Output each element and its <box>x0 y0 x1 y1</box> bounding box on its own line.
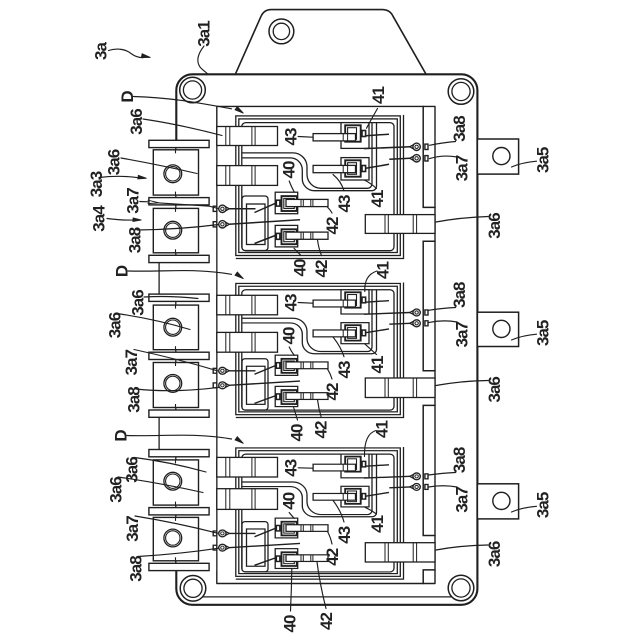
arrow D3 <box>235 437 244 444</box>
svg-text:3a6: 3a6 <box>127 109 146 135</box>
case inner bottom step line <box>186 596 468 598</box>
label 3a7 cell1 leader through flange <box>140 201 148 203</box>
svg-text:40: 40 <box>281 615 300 632</box>
svg-text:3a5: 3a5 <box>534 320 553 346</box>
svg-text:43: 43 <box>335 195 354 212</box>
power unit cell D #1 <box>213 115 428 259</box>
leader 43 <box>298 136 312 139</box>
mounting hole top-left <box>180 77 206 103</box>
leader 3a4 <box>107 219 134 221</box>
arrow 3a4 <box>133 218 142 222</box>
leader 43 <box>333 175 344 191</box>
leader 41 <box>365 344 377 355</box>
case body 3a outline <box>176 74 477 605</box>
terminal screw hole <box>164 318 182 336</box>
svg-text:3a4: 3a4 <box>90 205 109 232</box>
leader 3a6 <box>135 458 207 473</box>
leader 3a1 <box>198 46 208 74</box>
terminal flange 3a8 strip 1 <box>149 450 209 457</box>
leader 3a6 <box>436 217 488 223</box>
rail edge 3a4 between assemblies <box>158 262 160 294</box>
cavity opening outline <box>217 106 435 583</box>
mounting hole top-right <box>448 79 474 105</box>
svg-text:3a7: 3a7 <box>453 321 472 347</box>
leader 41 <box>365 507 377 514</box>
leader 42 <box>318 240 322 256</box>
output terminal bar 3a6 (right, cell 3) <box>365 543 435 562</box>
terminal screw hole <box>164 472 182 490</box>
leader 42 <box>318 400 322 417</box>
svg-text:3a7: 3a7 <box>453 155 472 181</box>
leader 40 <box>294 407 298 420</box>
arrow 3a3 <box>138 175 147 179</box>
leader 3a8 <box>137 225 219 231</box>
leader 3a5 <box>512 161 537 167</box>
terminal flange 3a8 strip 2 <box>149 508 209 515</box>
svg-text:3a6: 3a6 <box>107 477 126 503</box>
svg-text:42: 42 <box>312 421 331 438</box>
leader 43 <box>298 467 312 469</box>
svg-text:41: 41 <box>373 421 392 438</box>
svg-text:3a6: 3a6 <box>106 312 125 338</box>
terminal block 3a6 body 2 <box>153 208 198 252</box>
case edge behind blocks <box>175 140 177 262</box>
svg-text:42: 42 <box>317 613 336 630</box>
leader 3a7 <box>429 486 458 487</box>
svg-text:43: 43 <box>282 459 301 476</box>
leader 40 <box>294 248 301 255</box>
svg-text:3a5: 3a5 <box>534 492 553 518</box>
svg-text:3a8: 3a8 <box>450 282 469 308</box>
arrow D2 <box>235 272 244 279</box>
leader 3a7 <box>135 516 218 533</box>
leader D1 <box>134 97 232 109</box>
leader 3a6 <box>121 158 197 174</box>
terminal block 3a6 body 1 <box>153 460 198 505</box>
svg-text:43: 43 <box>335 526 354 543</box>
terminal block 3a6 body 2 <box>153 363 198 408</box>
svg-text:42: 42 <box>323 383 342 400</box>
output terminal bar 3a6 (right, cell 2) <box>365 378 435 398</box>
leader 3a8 <box>136 387 219 390</box>
svg-text:3a7: 3a7 <box>122 349 141 375</box>
svg-text:41: 41 <box>369 87 388 104</box>
svg-text:40: 40 <box>280 327 299 344</box>
leader 40 <box>289 513 294 519</box>
svg-text:3a6: 3a6 <box>129 290 148 316</box>
leader 42 <box>317 562 326 609</box>
terminal flange 3a8 strip 3 <box>149 410 209 417</box>
svg-text:3a8: 3a8 <box>450 116 469 142</box>
svg-text:3a8: 3a8 <box>450 447 469 473</box>
leader 3a8 <box>429 473 456 476</box>
leader 42 <box>328 369 333 379</box>
mounting hole bottom-right <box>448 575 474 601</box>
svg-text:43: 43 <box>335 361 354 378</box>
leader 40 <box>291 569 292 611</box>
terminal lead bar 3a6 (left, cell 3) <box>217 489 278 510</box>
svg-text:42: 42 <box>312 260 331 277</box>
svg-text:40: 40 <box>280 492 299 509</box>
leader 3a6 <box>117 314 190 330</box>
terminal screw hole <box>164 529 182 547</box>
terminal screw hole <box>164 375 182 393</box>
leader 3a6 <box>118 477 203 493</box>
leader 42 <box>328 532 333 545</box>
svg-text:42: 42 <box>323 217 342 234</box>
svg-text:3a8: 3a8 <box>125 387 144 413</box>
terminal block 3a6 body 2 <box>153 517 198 560</box>
terminal flange 3a8 strip 2 <box>149 352 209 359</box>
leader 3a5 <box>512 506 537 512</box>
arrow 3a <box>141 54 150 58</box>
svg-text:40: 40 <box>288 424 307 441</box>
cavity right inner ledge wall with notches <box>423 106 435 583</box>
terminal lead bar 3a6 (left, cell 2) <box>217 332 278 352</box>
leader 42 <box>328 207 333 213</box>
svg-text:40: 40 <box>280 161 299 178</box>
leader 3a5 <box>512 334 537 340</box>
svg-text:3a8: 3a8 <box>126 227 145 253</box>
leader 3a6 <box>436 381 488 386</box>
svg-text:41: 41 <box>374 262 393 279</box>
leader 41 <box>364 431 376 457</box>
terminal lead bar 3a6 (left, cell 1) <box>217 166 278 186</box>
svg-text:42: 42 <box>323 548 342 565</box>
terminal tab 3a5 #1 <box>477 139 518 174</box>
flange tab 3a1 (top trapezoid) <box>235 10 426 75</box>
leader 40 <box>289 347 294 355</box>
case edge behind blocks <box>175 294 177 417</box>
leader 3a6 <box>143 119 222 136</box>
terminal flange 3a8 strip 1 <box>149 294 209 301</box>
leader 3a8 <box>429 308 456 311</box>
svg-text:3a7: 3a7 <box>123 516 142 542</box>
leader 41 <box>367 109 378 129</box>
terminal lead bar 3a6 (left, cell 3) <box>217 457 278 477</box>
svg-text:3a6: 3a6 <box>105 149 124 175</box>
leader D3 <box>127 435 232 439</box>
terminal lead bar 3a6 (left, cell 1) <box>217 127 278 146</box>
hidden plate behind left terminal blocks <box>159 140 216 571</box>
flange tab hole <box>269 19 294 44</box>
mounting hole bottom-left <box>180 576 206 602</box>
terminal screw hole <box>164 165 182 183</box>
terminal flange 3a8 strip 3 <box>149 563 209 570</box>
leader 43 <box>333 337 344 357</box>
svg-text:41: 41 <box>368 356 387 373</box>
terminal lead bar 3a6 (left, cell 2) <box>217 295 278 315</box>
svg-text:3a7: 3a7 <box>124 188 143 214</box>
leader 3a8 <box>430 142 456 146</box>
power unit cell D #2 <box>213 283 428 418</box>
terminal flange 3a8 strip 2 <box>149 198 209 205</box>
terminal flange 3a8 strip 1 <box>149 140 209 147</box>
terminal block 3a6 body 1 <box>153 150 198 195</box>
leader 3a6 <box>436 545 488 550</box>
svg-text:3a1: 3a1 <box>195 21 214 47</box>
leader 3a7 <box>430 156 458 159</box>
terminal flange 3a8 strip 3 <box>149 255 209 262</box>
svg-text:41: 41 <box>368 515 387 532</box>
terminal screw hole <box>164 221 182 239</box>
case edge behind blocks <box>175 450 177 571</box>
svg-text:3a3: 3a3 <box>87 171 106 197</box>
leader 40 <box>289 181 294 192</box>
leader 3a3 <box>99 176 139 177</box>
leader 43 <box>333 500 344 522</box>
leader 3a <box>109 49 144 58</box>
svg-text:41: 41 <box>368 190 387 207</box>
svg-text:3a8: 3a8 <box>127 556 146 582</box>
leader 41 <box>365 180 377 188</box>
arrow D1 <box>235 107 244 114</box>
terminal tab 3a5 #2 <box>477 312 518 346</box>
terminal block 3a6 body 1 <box>153 305 198 350</box>
svg-text:3a: 3a <box>92 42 111 60</box>
svg-text:3a5: 3a5 <box>534 147 553 173</box>
terminal tab 3a5 #3 <box>477 484 518 519</box>
leader D2 <box>128 271 232 275</box>
leader 3a8 <box>138 548 219 556</box>
output terminal bar 3a6 (right, cell 1) <box>365 215 435 234</box>
leader 3a6 <box>144 297 198 299</box>
svg-text:3a7: 3a7 <box>453 487 472 513</box>
leader 41 <box>365 271 377 292</box>
svg-text:43: 43 <box>282 128 301 145</box>
svg-text:40: 40 <box>291 259 310 276</box>
power unit cell D #3 <box>213 447 428 579</box>
leader 3a7 <box>134 350 218 371</box>
leader 3a7 <box>429 321 458 323</box>
leader 43 <box>298 302 312 305</box>
svg-text:43: 43 <box>282 294 301 311</box>
